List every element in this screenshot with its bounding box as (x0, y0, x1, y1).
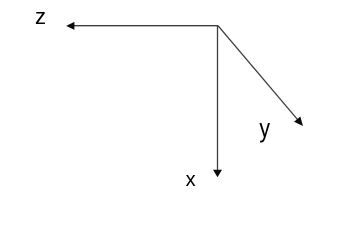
wire y-axis line (218, 26, 298, 120)
wire z-axis line (74, 25, 218, 27)
wire x-axis line (217, 26, 219, 171)
x-axis arrowhead (213, 170, 222, 178)
z-axis arrowhead (66, 22, 74, 30)
y-axis arrowhead (294, 117, 303, 127)
svg-text:y: y (259, 114, 270, 144)
svg-text:z: z (35, 4, 46, 29)
svg-text:x: x (186, 169, 196, 191)
